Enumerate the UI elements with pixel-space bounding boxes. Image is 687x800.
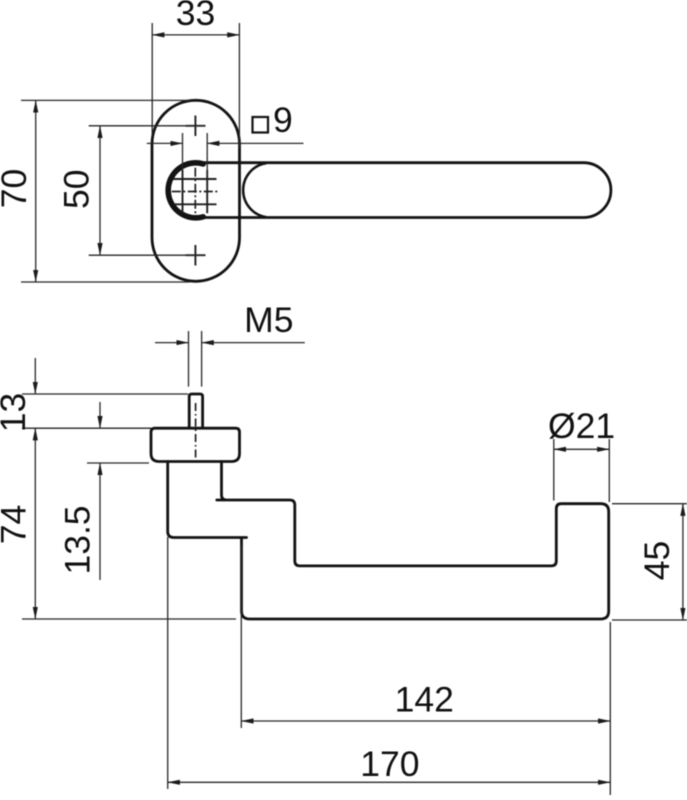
dim 74 bottom extension line <box>22 618 236 620</box>
dim square-9 arrows and leader <box>147 142 183 144</box>
rosette oval outline <box>152 100 240 281</box>
svg-text:50: 50 <box>57 170 97 210</box>
square-9 symbol <box>253 117 269 133</box>
dim 13 extension lines <box>22 394 188 428</box>
dim 45 line <box>682 504 684 620</box>
bottom screw cross <box>186 245 206 266</box>
dim 13.5 extension line <box>87 462 149 464</box>
dim M5 extension lines <box>189 331 202 387</box>
dim 70 line <box>35 100 37 282</box>
grip end arc <box>243 163 266 217</box>
dim 50 line <box>99 126 101 255</box>
dim M5 arrows and leader <box>155 342 189 344</box>
M5 stud <box>189 394 202 428</box>
dim 170 extension line <box>167 537 169 789</box>
svg-text:170: 170 <box>360 744 419 784</box>
dim 33 extension lines <box>152 23 239 148</box>
svg-text:13: 13 <box>0 393 33 433</box>
lever grip outline (top view) <box>195 163 611 218</box>
dim diam-21 extension lines <box>554 439 610 502</box>
dim 45 extension lines <box>612 504 687 620</box>
dim square-9 extension lines <box>183 133 208 177</box>
svg-text:9: 9 <box>273 100 293 140</box>
dim 142 line <box>241 720 610 722</box>
spindle centerlines <box>172 168 219 215</box>
dim 50 extension lines <box>89 126 206 255</box>
svg-text:Ø21: Ø21 <box>548 406 615 446</box>
neck arc (extra thick) <box>168 163 203 218</box>
dim 170 line <box>168 781 611 783</box>
svg-text:74: 74 <box>0 505 34 545</box>
svg-text:M5: M5 <box>244 300 293 340</box>
svg-text:142: 142 <box>395 680 454 720</box>
dim 70 extension lines <box>21 100 190 282</box>
svg-text:33: 33 <box>176 0 216 33</box>
svg-text:13.5: 13.5 <box>58 505 98 574</box>
svg-text:70: 70 <box>0 169 34 209</box>
dim 74 line <box>34 428 36 619</box>
dim 142 extension lines <box>241 545 610 795</box>
rosette cap (side view) <box>151 428 240 461</box>
dim 33 line <box>152 34 239 36</box>
svg-text:45: 45 <box>637 541 677 581</box>
square spindle outline <box>174 170 217 213</box>
dim 13.5 arrows <box>99 402 101 428</box>
handle body outline (side view) <box>168 462 609 620</box>
dim diam-21 line <box>554 448 610 450</box>
top screw cross <box>186 116 206 137</box>
dim 13 outside arrow top <box>34 358 36 394</box>
stud centerline <box>195 403 197 459</box>
